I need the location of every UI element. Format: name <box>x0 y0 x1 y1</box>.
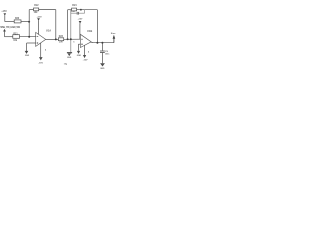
resistor R20 <box>14 18 29 23</box>
power flag +15V (top left) <box>1 11 7 22</box>
power flag +15V (U1B supply) <box>78 19 83 40</box>
node: junction C branch / inverting wire <box>70 38 72 40</box>
svg-text:6: 6 <box>73 41 74 43</box>
op-amp U1A <box>36 29 52 47</box>
svg-text:10k: 10k <box>13 40 18 42</box>
node: junction R20 / inverting bus <box>28 21 30 23</box>
capacitor C29 (parallel feedback, U1B) <box>71 10 85 15</box>
op-amp U1B <box>80 29 92 48</box>
wire: feedback down to U1B output <box>96 10 98 43</box>
svg-text:+15V: +15V <box>37 16 43 18</box>
svg-text:10k: 10k <box>59 41 64 43</box>
svg-text:GND: GND <box>77 55 82 57</box>
node: junction U1B output / feedback <box>96 42 98 44</box>
wire: U1A + input to ground <box>27 43 36 51</box>
wire: U1B inverting node down to output cap branch <box>70 10 72 53</box>
svg-text:GND: GND <box>67 57 72 59</box>
input port SINE_TRI_GAIN_SW <box>0 26 20 37</box>
wire: U1B + input to ground <box>78 44 80 51</box>
svg-text:R24: R24 <box>72 4 77 7</box>
svg-text:R22: R22 <box>34 5 39 7</box>
svg-text:Sine: Sine <box>111 33 116 35</box>
svg-text:U1A: U1A <box>46 29 51 33</box>
svg-text:10k: 10k <box>34 12 39 14</box>
svg-text:SINE_TRI_GAIN_SW: SINE_TRI_GAIN_SW <box>0 26 20 29</box>
power flag -15V (U1B supply) <box>83 45 90 61</box>
wire: U1B output <box>91 41 93 44</box>
power flag -15V (U1A supply) <box>38 43 47 65</box>
capacitor C30 (output to gnd) <box>100 43 110 64</box>
svg-text:U1B: U1B <box>87 29 92 33</box>
svg-text:100n: 100n <box>105 53 110 55</box>
wire input port to R21 <box>5 36 13 38</box>
ground (U1A + input) <box>25 51 30 57</box>
feedback resistor R24 (U1B) <box>68 4 98 39</box>
wire from +15V flag to R20 <box>5 21 14 23</box>
power flag +15V (U1A supply) <box>37 16 43 35</box>
ground (below C30) <box>100 63 105 70</box>
ground (U1B + input) <box>77 51 82 57</box>
node: junction R23 / U1B inverting input <box>67 38 69 40</box>
resistor R23 (series) <box>58 36 80 43</box>
resistor R21 <box>13 34 36 42</box>
svg-text:4: 4 <box>45 48 47 51</box>
svg-text:GND: GND <box>25 55 30 57</box>
wire: U1A output <box>46 38 59 40</box>
node: junction output / C30 <box>101 42 103 44</box>
feedback resistor R22 (U1A) <box>29 5 56 14</box>
svg-text:+15V: +15V <box>78 19 83 21</box>
capacitor to ground (U1B node) <box>64 53 72 66</box>
svg-text:10p: 10p <box>64 63 68 65</box>
node: junction on feedback wire <box>80 9 82 11</box>
node: junction U1A output / feedback <box>55 38 57 40</box>
node: junction bus / U1A inverting input <box>28 36 30 38</box>
output port Sine <box>111 33 116 43</box>
svg-text:-15V: -15V <box>83 59 88 61</box>
svg-text:GND: GND <box>100 68 105 70</box>
svg-text:+15V: +15V <box>1 11 7 13</box>
wire: feedback down to U1A output <box>55 10 57 40</box>
svg-text:4: 4 <box>88 51 90 54</box>
wire: inverting-input bus of U1A <box>28 10 30 37</box>
svg-text:-15V: -15V <box>38 63 43 65</box>
